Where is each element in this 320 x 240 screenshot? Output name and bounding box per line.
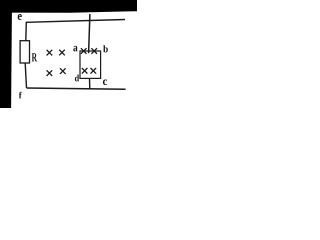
node e label bbox=[18, 14, 22, 20]
wire: connector from loop edge dc to bottom rail bbox=[89, 79, 91, 90]
node d label bbox=[75, 75, 79, 82]
wire: bottom rail from f bbox=[27, 88, 126, 89]
resistor R (box) bbox=[20, 41, 29, 63]
wire: left vertical from e-corner to resistor bbox=[25, 22, 28, 41]
white page background bbox=[0, 0, 137, 108]
black band left (scan margin) bbox=[0, 0, 12, 108]
resistor value label R bbox=[32, 53, 37, 61]
field mark x7 (in loop, bottom-left) bbox=[82, 68, 88, 74]
field mark x5 (on loop top edge, left) bbox=[81, 48, 87, 54]
field mark x3 bbox=[47, 70, 53, 76]
node a label bbox=[73, 46, 77, 52]
field mark x8 (in loop, bottom-right) bbox=[91, 68, 97, 74]
node c label bbox=[103, 80, 107, 86]
wire: top rail from e bbox=[26, 20, 125, 23]
field mark x1 bbox=[47, 50, 53, 56]
field mark x2 bbox=[59, 50, 65, 56]
wire: left vertical from resistor to f-corner bbox=[25, 63, 26, 88]
black band top (scan margin) bbox=[0, 0, 137, 13]
node f label bbox=[19, 92, 22, 99]
field mark x6 (on loop top edge, right) bbox=[91, 48, 97, 54]
node b label bbox=[103, 45, 108, 52]
field mark x4 bbox=[60, 68, 66, 74]
loop abcd (rectangle) bbox=[80, 51, 101, 78]
wire: vertical rod from top rail down to loop edge ab bbox=[89, 14, 90, 53]
